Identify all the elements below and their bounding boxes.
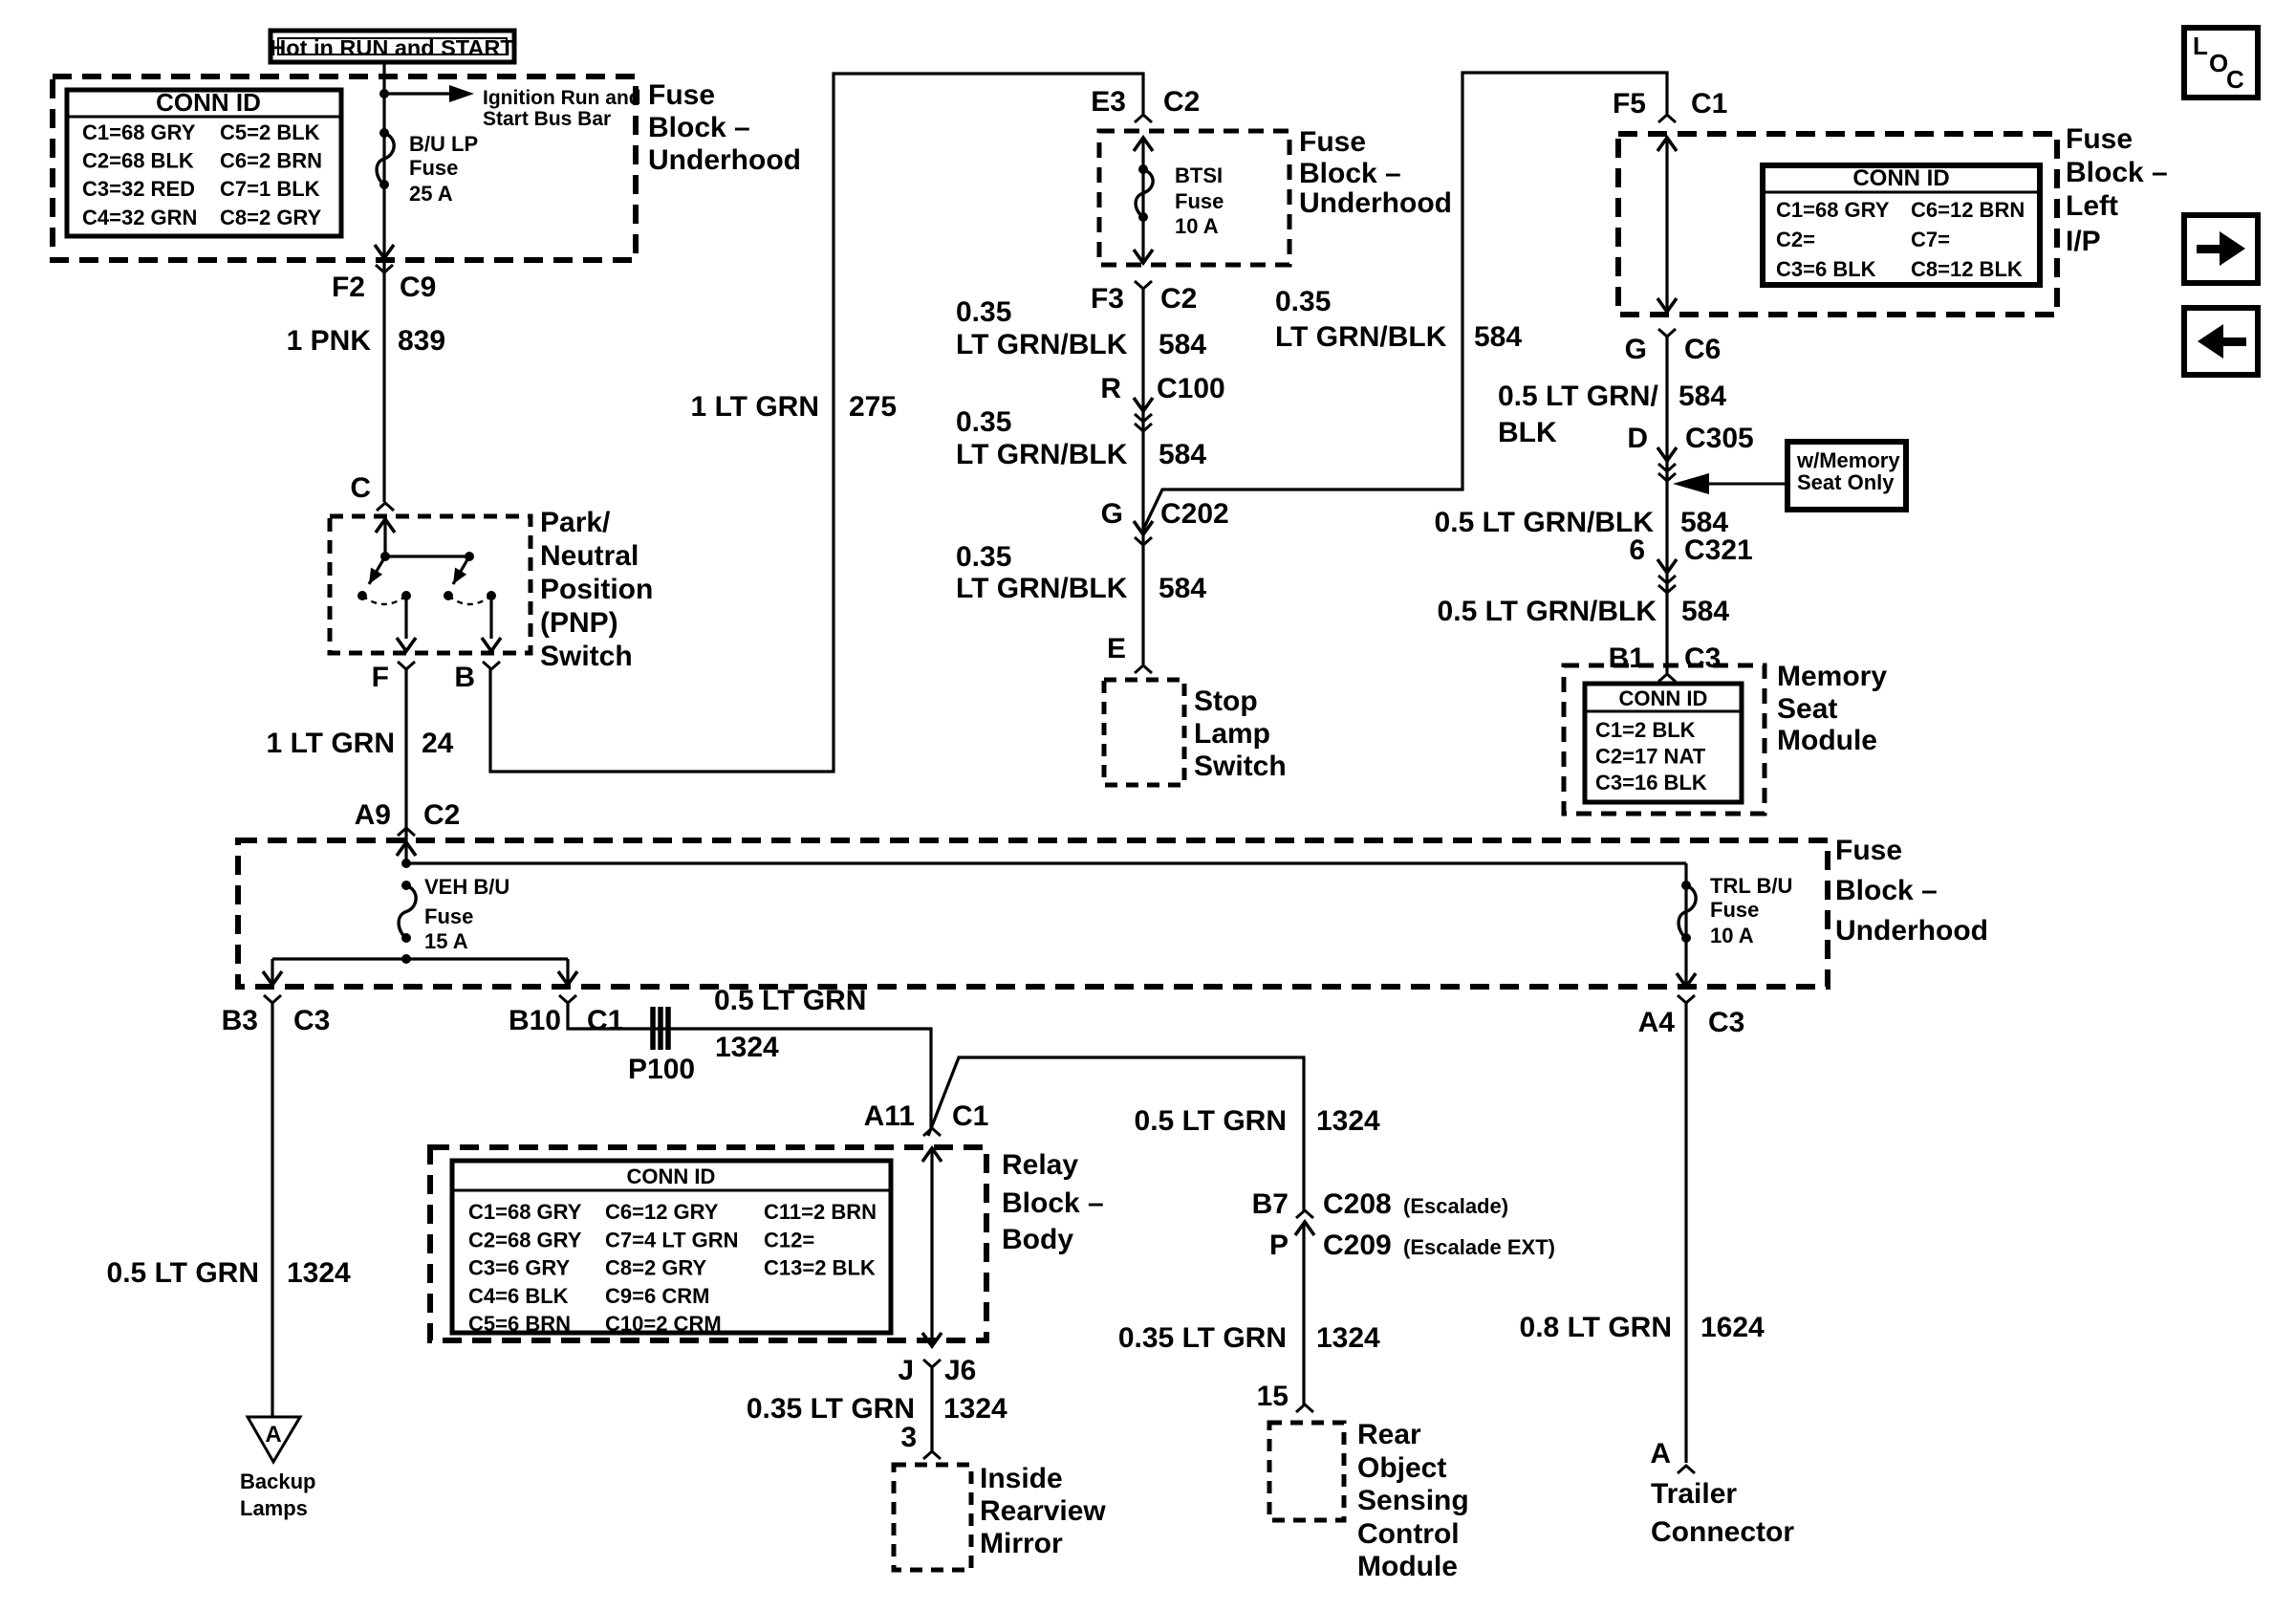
svg-text:C2=68 BLK: C2=68 BLK xyxy=(82,149,194,173)
svg-text:Fuse: Fuse xyxy=(409,156,458,180)
svg-text:Trailer: Trailer xyxy=(1651,1478,1737,1510)
svg-text:C8=12 BLK: C8=12 BLK xyxy=(1911,257,2023,281)
svg-text:C10=2 CRM: C10=2 CRM xyxy=(605,1312,722,1336)
svg-text:A: A xyxy=(1650,1438,1671,1469)
svg-text:Rear: Rear xyxy=(1357,1419,1421,1450)
svg-text:Lamp: Lamp xyxy=(1194,718,1270,750)
svg-text:A: A xyxy=(265,1422,281,1448)
svg-text:Body: Body xyxy=(1002,1224,1073,1255)
svg-text:LT GRN/BLK: LT GRN/BLK xyxy=(956,573,1128,604)
svg-text:Start Bus Bar: Start Bus Bar xyxy=(483,108,611,130)
svg-text:Module: Module xyxy=(1777,725,1877,756)
svg-text:C2=68 GRY: C2=68 GRY xyxy=(468,1228,582,1252)
svg-text:Seat: Seat xyxy=(1777,693,1837,725)
svg-text:Block –: Block – xyxy=(1002,1187,1104,1219)
svg-text:584: 584 xyxy=(1474,321,1522,353)
svg-text:1324: 1324 xyxy=(1316,1322,1380,1354)
svg-text:15 A: 15 A xyxy=(424,929,468,953)
svg-text:C9: C9 xyxy=(400,272,436,303)
svg-text:CONN ID: CONN ID xyxy=(627,1165,716,1188)
svg-text:C2: C2 xyxy=(1160,283,1197,315)
svg-text:0.5 LT GRN: 0.5 LT GRN xyxy=(1135,1105,1287,1137)
svg-text:0.5 LT GRN/: 0.5 LT GRN/ xyxy=(1498,381,1658,412)
svg-text:584: 584 xyxy=(1159,329,1206,360)
svg-text:A4: A4 xyxy=(1638,1007,1676,1038)
svg-text:C: C xyxy=(350,472,371,504)
svg-text:Block –: Block – xyxy=(1299,158,1401,189)
svg-text:(PNP): (PNP) xyxy=(540,607,618,639)
svg-text:B/U LP: B/U LP xyxy=(409,132,478,156)
svg-text:0.35 LT GRN: 0.35 LT GRN xyxy=(747,1393,915,1425)
svg-text:B7: B7 xyxy=(1252,1188,1289,1220)
svg-text:I/P: I/P xyxy=(2066,226,2101,257)
svg-text:Switch: Switch xyxy=(1194,751,1287,782)
svg-text:C6=2 BRN: C6=2 BRN xyxy=(220,149,322,173)
svg-text:Sensing: Sensing xyxy=(1357,1485,1469,1516)
svg-text:B3: B3 xyxy=(222,1005,258,1036)
svg-text:C208: C208 xyxy=(1323,1188,1392,1220)
svg-text:Hot in RUN and START: Hot in RUN and START xyxy=(270,35,514,60)
svg-text:584: 584 xyxy=(1159,573,1206,604)
svg-text:0.5 LT GRN/BLK: 0.5 LT GRN/BLK xyxy=(1435,507,1655,538)
svg-text:0.5 LT GRN: 0.5 LT GRN xyxy=(107,1257,259,1289)
svg-text:C6=12 GRY: C6=12 GRY xyxy=(605,1200,719,1224)
svg-text:P100: P100 xyxy=(628,1054,695,1085)
svg-text:275: 275 xyxy=(849,391,897,423)
svg-text:P: P xyxy=(1269,1230,1289,1261)
svg-text:(Escalade EXT): (Escalade EXT) xyxy=(1403,1235,1555,1259)
svg-text:0.5 LT GRN: 0.5 LT GRN xyxy=(714,985,866,1016)
svg-text:584: 584 xyxy=(1159,439,1206,470)
svg-text:C4=6 BLK: C4=6 BLK xyxy=(468,1284,569,1308)
svg-text:C1: C1 xyxy=(952,1100,988,1132)
svg-text:C7=4 LT GRN: C7=4 LT GRN xyxy=(605,1228,739,1252)
svg-text:C305: C305 xyxy=(1685,423,1754,454)
svg-text:1 LT GRN: 1 LT GRN xyxy=(691,391,819,423)
svg-text:1324: 1324 xyxy=(1316,1105,1380,1137)
svg-text:LT GRN/BLK: LT GRN/BLK xyxy=(956,439,1128,470)
svg-text:24: 24 xyxy=(422,728,454,759)
svg-text:0.8 LT GRN: 0.8 LT GRN xyxy=(1520,1312,1672,1343)
svg-text:Park/: Park/ xyxy=(540,507,611,538)
svg-text:Mirror: Mirror xyxy=(980,1528,1063,1559)
svg-text:Block –: Block – xyxy=(2066,157,2168,188)
svg-text:F3: F3 xyxy=(1091,283,1124,315)
svg-text:584: 584 xyxy=(1679,381,1726,412)
svg-text:15: 15 xyxy=(1257,1381,1289,1412)
svg-text:Position: Position xyxy=(540,574,653,605)
svg-text:1324: 1324 xyxy=(287,1257,351,1289)
svg-text:F5: F5 xyxy=(1613,88,1646,120)
svg-text:0.35: 0.35 xyxy=(956,296,1011,328)
svg-text:C1=68 GRY: C1=68 GRY xyxy=(1776,198,1890,222)
svg-text:839: 839 xyxy=(398,325,445,357)
svg-text:R: R xyxy=(1100,373,1121,404)
svg-text:Switch: Switch xyxy=(540,641,633,672)
svg-text:C1: C1 xyxy=(587,1005,623,1036)
svg-text:Fuse: Fuse xyxy=(648,79,715,111)
svg-text:L: L xyxy=(2193,32,2208,60)
svg-text:Control: Control xyxy=(1357,1518,1460,1550)
svg-text:Left: Left xyxy=(2066,190,2118,222)
svg-text:C4=32 GRN: C4=32 GRN xyxy=(82,206,197,229)
svg-text:E: E xyxy=(1107,633,1126,664)
svg-text:C3=32 RED: C3=32 RED xyxy=(82,177,195,201)
svg-text:Fuse: Fuse xyxy=(1710,898,1759,922)
svg-text:CONN ID: CONN ID xyxy=(1852,165,1949,191)
svg-text:C6=12 BRN: C6=12 BRN xyxy=(1911,198,2025,222)
svg-text:0.35 LT GRN: 0.35 LT GRN xyxy=(1118,1322,1287,1354)
svg-text:C7=1 BLK: C7=1 BLK xyxy=(220,177,320,201)
svg-text:BLK: BLK xyxy=(1498,417,1557,448)
svg-text:C100: C100 xyxy=(1157,373,1225,404)
svg-text:10 A: 10 A xyxy=(1175,214,1219,238)
svg-text:Block –: Block – xyxy=(1835,875,1938,906)
svg-text:Fuse: Fuse xyxy=(1299,126,1366,158)
svg-text:G: G xyxy=(1625,334,1647,365)
svg-text:Block –: Block – xyxy=(648,112,750,143)
svg-text:G: G xyxy=(1101,498,1123,530)
svg-text:C8=2 GRY: C8=2 GRY xyxy=(220,206,322,229)
svg-text:1624: 1624 xyxy=(1700,1312,1765,1343)
svg-text:C209: C209 xyxy=(1323,1230,1392,1261)
svg-text:LT GRN/BLK: LT GRN/BLK xyxy=(1275,321,1447,353)
svg-text:C13=2 BLK: C13=2 BLK xyxy=(764,1256,876,1280)
svg-text:B10: B10 xyxy=(509,1005,561,1036)
svg-text:25 A: 25 A xyxy=(409,182,453,206)
svg-text:3: 3 xyxy=(900,1422,917,1453)
svg-text:C9=6 CRM: C9=6 CRM xyxy=(605,1284,709,1308)
svg-text:Underhood: Underhood xyxy=(1835,915,1988,947)
svg-text:Relay: Relay xyxy=(1002,1149,1078,1181)
svg-text:C3=6 GRY: C3=6 GRY xyxy=(468,1256,571,1280)
svg-text:C3=16 BLK: C3=16 BLK xyxy=(1595,771,1707,795)
svg-text:B1: B1 xyxy=(1609,642,1645,674)
svg-text:E3: E3 xyxy=(1091,86,1126,118)
svg-text:1324: 1324 xyxy=(715,1032,779,1063)
svg-text:C6: C6 xyxy=(1684,334,1721,365)
svg-text:C1=2 BLK: C1=2 BLK xyxy=(1595,718,1696,742)
svg-text:B: B xyxy=(454,662,475,693)
svg-text:Fuse: Fuse xyxy=(424,904,473,928)
svg-text:C5=2 BLK: C5=2 BLK xyxy=(220,120,320,144)
svg-text:C1=68 GRY: C1=68 GRY xyxy=(468,1200,582,1224)
svg-text:0.5 LT GRN/BLK: 0.5 LT GRN/BLK xyxy=(1438,596,1657,627)
svg-text:Inside: Inside xyxy=(980,1463,1063,1494)
svg-text:Neutral: Neutral xyxy=(540,540,639,572)
svg-text:F: F xyxy=(372,662,389,693)
svg-text:Rearview: Rearview xyxy=(980,1495,1106,1527)
svg-text:TRL B/U: TRL B/U xyxy=(1710,874,1792,898)
svg-text:C2=: C2= xyxy=(1776,228,1815,251)
svg-text:Object: Object xyxy=(1357,1452,1446,1484)
svg-text:F2: F2 xyxy=(332,272,365,303)
svg-text:C2=17 NAT: C2=17 NAT xyxy=(1595,745,1706,769)
svg-text:C321: C321 xyxy=(1684,534,1753,566)
svg-text:0.35: 0.35 xyxy=(1275,286,1331,317)
svg-text:10 A: 10 A xyxy=(1710,924,1754,947)
svg-text:Fuse: Fuse xyxy=(1175,189,1224,213)
svg-text:C: C xyxy=(2226,65,2244,94)
svg-text:A11: A11 xyxy=(864,1100,915,1132)
svg-text:C12=: C12= xyxy=(764,1228,814,1252)
svg-text:Memory: Memory xyxy=(1777,661,1887,692)
svg-text:D: D xyxy=(1627,423,1648,454)
svg-text:C2: C2 xyxy=(423,799,460,831)
svg-text:J: J xyxy=(898,1355,914,1386)
svg-text:1324: 1324 xyxy=(943,1393,1007,1425)
svg-text:(Escalade): (Escalade) xyxy=(1403,1194,1508,1218)
svg-text:J6: J6 xyxy=(944,1355,976,1386)
svg-text:CONN ID: CONN ID xyxy=(1619,686,1708,710)
svg-text:BTSI: BTSI xyxy=(1175,163,1223,187)
svg-text:C11=2 BRN: C11=2 BRN xyxy=(764,1200,877,1224)
svg-text:Seat Only: Seat Only xyxy=(1797,470,1895,494)
svg-text:Connector: Connector xyxy=(1651,1516,1794,1548)
svg-text:C1=68 GRY: C1=68 GRY xyxy=(82,120,196,144)
svg-text:C3: C3 xyxy=(1708,1007,1744,1038)
svg-text:C3: C3 xyxy=(293,1005,330,1036)
svg-text:1 PNK: 1 PNK xyxy=(287,325,372,357)
svg-text:Underhood: Underhood xyxy=(648,144,801,176)
svg-text:6: 6 xyxy=(1629,534,1645,566)
svg-text:Fuse: Fuse xyxy=(1835,835,1902,866)
svg-text:Ignition Run and: Ignition Run and xyxy=(483,87,641,109)
svg-text:C3=6 BLK: C3=6 BLK xyxy=(1776,257,1876,281)
svg-text:Module: Module xyxy=(1357,1551,1458,1582)
svg-text:LT GRN/BLK: LT GRN/BLK xyxy=(956,329,1128,360)
svg-text:C2: C2 xyxy=(1163,86,1200,118)
svg-text:C3: C3 xyxy=(1684,642,1721,674)
svg-text:C7=: C7= xyxy=(1911,228,1950,251)
svg-text:0.35: 0.35 xyxy=(956,406,1011,438)
svg-text:C202: C202 xyxy=(1160,498,1229,530)
svg-text:Backup: Backup xyxy=(240,1469,315,1493)
svg-text:0.35: 0.35 xyxy=(956,541,1011,573)
svg-text:VEH B/U: VEH B/U xyxy=(424,875,509,899)
svg-text:Underhood: Underhood xyxy=(1299,187,1452,219)
svg-text:C1: C1 xyxy=(1691,88,1727,120)
svg-text:C8=2 GRY: C8=2 GRY xyxy=(605,1256,707,1280)
svg-text:1 LT GRN: 1 LT GRN xyxy=(267,728,395,759)
svg-text:584: 584 xyxy=(1681,596,1729,627)
svg-text:C5=6 BRN: C5=6 BRN xyxy=(468,1312,571,1336)
svg-text:Fuse: Fuse xyxy=(2066,123,2133,155)
svg-text:CONN ID: CONN ID xyxy=(156,88,261,117)
svg-text:Lamps: Lamps xyxy=(240,1496,308,1520)
svg-text:A9: A9 xyxy=(355,799,391,831)
svg-text:Stop: Stop xyxy=(1194,686,1258,717)
svg-text:w/Memory: w/Memory xyxy=(1796,448,1900,472)
